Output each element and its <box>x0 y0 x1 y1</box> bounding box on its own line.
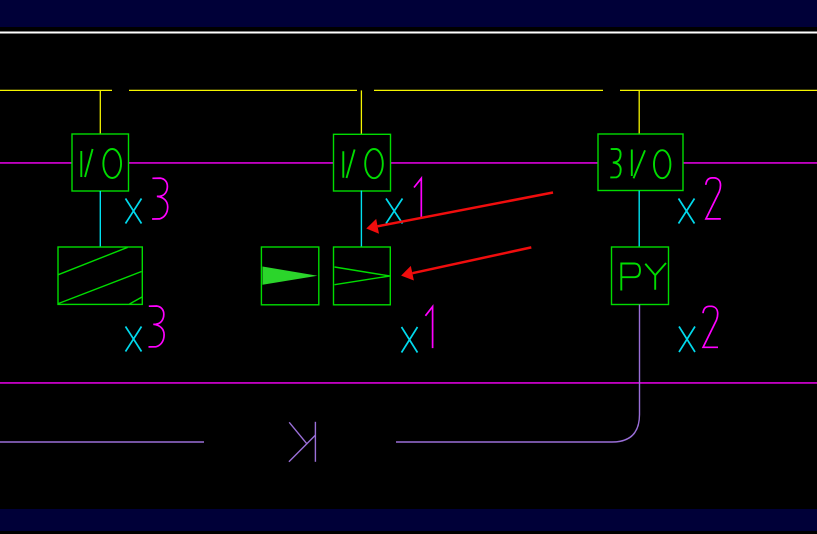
wire drop bus to U2 <box>360 90 362 134</box>
3I/O module U3 <box>598 134 683 191</box>
magenta control line (upper) <box>0 162 817 164</box>
quantity label x1 at U2 <box>386 178 421 223</box>
bottom window band <box>0 509 817 531</box>
quantity label x3 at U1 <box>126 178 168 223</box>
quantity label x2 at PY <box>679 306 718 352</box>
white divider line <box>0 32 817 34</box>
quantity label x3 at E1 <box>126 306 165 352</box>
damper M1 (filled wedge) <box>261 247 318 305</box>
quantity label x2 at U3 <box>679 178 721 224</box>
wire U3 to PY <box>638 191 640 248</box>
magenta control line (lower) <box>0 382 817 384</box>
violet net K left wire segment <box>0 441 204 443</box>
quantity label x1 at M2 <box>402 307 433 353</box>
net name K (mirrored text) <box>289 422 316 462</box>
I/O module U2 <box>334 134 391 191</box>
yellow supply bus segment 3 <box>374 89 603 91</box>
top window band <box>0 0 817 27</box>
red annotation arrow 2 <box>401 247 531 280</box>
wire U1 to E1 <box>99 191 101 247</box>
yellow supply bus segment 1 <box>0 89 112 91</box>
yellow supply bus segment 2 <box>129 89 357 91</box>
wire drop bus to U1 <box>99 90 101 134</box>
red annotation arrow 1 <box>366 193 553 234</box>
wire drop bus to U3 <box>638 90 640 134</box>
actuator PY <box>612 247 669 305</box>
yellow supply bus segment 4 <box>620 89 817 91</box>
heater E1 (hatched box) <box>58 247 142 304</box>
damper M2 (open wedge) <box>334 247 391 305</box>
violet net K right wire segment with bend up to PY <box>396 305 640 443</box>
I/O module U1 <box>72 134 129 191</box>
wire U2 to M2 <box>360 191 362 248</box>
